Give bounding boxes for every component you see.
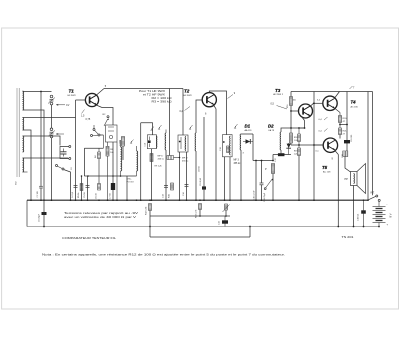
- resistor R18b: [298, 148, 301, 156]
- wire loop left: [149, 211, 151, 238]
- svg-text:9 V: 9 V: [389, 213, 393, 217]
- annotation 9 T2: [228, 95, 234, 99]
- svg-text:AA 119: AA 119: [245, 129, 253, 132]
- ground bus A: [27, 199, 369, 201]
- svg-text:-: -: [387, 204, 388, 207]
- svg-text:HP: HP: [345, 178, 349, 181]
- resistor R13: [199, 204, 202, 210]
- wire osc top: [120, 140, 122, 147]
- svg-text:MF 2/: MF 2/: [182, 158, 188, 160]
- wire MF3 bottoms: [224, 157, 226, 200]
- wire MF1 bottom to bus: [151, 149, 153, 201]
- svg-text:C5 50: C5 50: [84, 192, 86, 198]
- svg-text:Nota : En certains appareils,: Nota : En certains appareils, une résist…: [42, 252, 285, 256]
- svg-text:R9 1,2k: R9 1,2k: [155, 166, 163, 168]
- wire D2 top: [281, 128, 305, 132]
- svg-text:C10: C10: [144, 143, 146, 146]
- wire box right drop: [116, 142, 118, 200]
- wire R6 down: [107, 156, 109, 200]
- wire x347 rail: [346, 92, 348, 152]
- wire MF2left down: [165, 150, 167, 200]
- resistor R17: [290, 133, 293, 143]
- wire AF coupling: [273, 154, 291, 156]
- capacitor C18: [361, 210, 366, 213]
- wire D1 top: [241, 133, 253, 135]
- wire T4 base: [314, 102, 323, 104]
- wire T2 emitter: [214, 105, 217, 109]
- wire T1 collector diag: [97, 89, 105, 96]
- arrow CV1: [56, 104, 65, 106]
- variable capacitor CV1: [50, 95, 53, 98]
- svg-text:MF 1/: MF 1/: [158, 156, 164, 158]
- wire rail to R16: [290, 92, 292, 97]
- coil D1 secondary: [239, 134, 242, 150]
- antenna coil L3: [23, 136, 24, 152]
- node R20-R21: [339, 124, 341, 126]
- svg-text:avec un voltmètre de 40 000 Ω: avec un voltmètre de 40 000 Ω par V: [64, 216, 137, 219]
- svg-text:1,2k: 1,2k: [294, 154, 298, 156]
- svg-text:100: 100: [294, 140, 297, 142]
- svg-text:AC 180: AC 180: [351, 106, 359, 109]
- resistor R10: [171, 183, 174, 190]
- wire osc coils bottom: [120, 171, 122, 176]
- wire mid y145: [291, 144, 323, 146]
- resistor R20: [339, 116, 342, 123]
- wire osc box down: [112, 142, 114, 183]
- svg-text:R2 = 100 kΩ: R2 = 100 kΩ: [152, 96, 172, 100]
- IF transformer MF1: [147, 135, 156, 149]
- wire T1 base: [76, 99, 86, 101]
- svg-text:T2: T2: [184, 89, 190, 94]
- wire R-junction: [339, 113, 341, 116]
- wire rail to MF2: [182, 89, 184, 136]
- oscillator box: [106, 125, 118, 142]
- transistor T2: [202, 93, 216, 107]
- wire pot to bus: [272, 174, 274, 201]
- antenna coil L4: [23, 158, 24, 172]
- svg-text:C5 25µF: C5 25µF: [39, 213, 41, 222]
- thermistor P2: [225, 204, 228, 210]
- resistor R4b: [98, 184, 101, 191]
- node y176 b: [112, 175, 114, 177]
- wire loop bottom: [150, 236, 250, 238]
- svg-text:PO GO: PO GO: [127, 182, 134, 184]
- wire L2 top to T1 base: [23, 117, 76, 119]
- capacitor C5 below bus: [42, 212, 47, 215]
- wire x372 supply: [372, 92, 374, 196]
- wire D1 down: [252, 134, 254, 161]
- svg-text:C15 4,7nF: C15 4,7nF: [254, 190, 256, 200]
- svg-text:C4 0,1: C4 0,1: [72, 191, 74, 198]
- diode D1: [246, 139, 251, 143]
- svg-text:455 kc: 455 kc: [182, 161, 189, 163]
- svg-text:OSC.: OSC.: [127, 179, 133, 181]
- svg-text:Pour T1 HF 9WX: Pour T1 HF 9WX: [139, 89, 165, 93]
- wire base down x76: [75, 100, 77, 200]
- annotation 7: [350, 86, 353, 89]
- node det1: [255, 160, 257, 162]
- svg-text:GO: GO: [16, 181, 18, 185]
- wire CV2 down to bus: [51, 138, 53, 200]
- capacitor C13: [164, 185, 168, 187]
- wire R18 chain: [298, 128, 300, 134]
- wire x204 hang: [203, 117, 205, 200]
- ferrite rod antenna: [16, 88, 18, 177]
- IF transformer MF2: [178, 135, 188, 152]
- svg-text:CV: CV: [66, 104, 70, 107]
- wire T4 collector: [335, 92, 340, 98]
- trimmer bracket: [60, 147, 69, 159]
- supply rail right y91: [291, 91, 373, 93]
- wire loop right up: [249, 227, 251, 238]
- svg-text:HF 9WX: HF 9WX: [68, 95, 77, 97]
- wire x44 below: [43, 200, 45, 226]
- wire x196 down: [195, 151, 197, 200]
- transistor T3: [299, 104, 313, 118]
- svg-text:455 kc: 455 kc: [158, 159, 165, 161]
- svg-text:T5: T5: [322, 165, 328, 170]
- wire T3 emitter: [302, 117, 305, 121]
- svg-text:R19: R19: [294, 151, 297, 153]
- wire speaker lead2: [353, 186, 355, 227]
- wire x84 down: [83, 148, 85, 176]
- speaker HP: [351, 172, 358, 186]
- wire down x41: [40, 92, 42, 187]
- bus B junction dots: [43, 226, 45, 228]
- wire L1 bottom: [23, 110, 45, 200]
- switch contact pair: [56, 165, 58, 167]
- wire switch to x70: [64, 170, 71, 201]
- wire junction to x347: [340, 124, 347, 126]
- svg-text:et T2 HF 9WX: et T2 HF 9WX: [143, 93, 165, 97]
- svg-text:MF 3: MF 3: [234, 160, 240, 162]
- wire T3 collector: [311, 103, 315, 106]
- wire R8 out: [174, 157, 180, 159]
- capacitor C5e: [86, 185, 90, 187]
- capacitor C20 box: [343, 151, 348, 157]
- wire L1 top to CV1: [23, 91, 52, 93]
- wire deck2 up: [93, 125, 95, 129]
- oscillator coil Lb: [137, 151, 138, 171]
- capacitor C14: [185, 184, 189, 186]
- wire T4 emitter: [335, 109, 340, 113]
- variable capacitor CV2: [50, 128, 53, 131]
- emitter rail y148: [84, 147, 103, 149]
- battery 9V: [373, 206, 386, 208]
- wire C11 stub: [224, 216, 226, 227]
- trimmer plates: [61, 151, 67, 153]
- node e-cluster: [304, 127, 306, 129]
- capacitor C7 electrolytic: [111, 183, 115, 190]
- wire x87 drop: [87, 176, 89, 200]
- node x314 y145: [313, 144, 315, 146]
- resistor R8: [167, 156, 174, 160]
- svg-text:COMPARATEUR TESTEUR FIL: COMPARATEUR TESTEUR FIL: [62, 236, 117, 240]
- bus left end join: [26, 200, 28, 226]
- svg-text:R13 4,7k: R13 4,7k: [196, 209, 198, 218]
- node pot top: [272, 160, 274, 162]
- svg-text:R3 = 390 kΩ: R3 = 390 kΩ: [152, 100, 172, 104]
- wire x169 drop: [169, 89, 171, 156]
- svg-text:AC 128: AC 128: [323, 171, 331, 174]
- node L1-CV1: [40, 91, 42, 93]
- wire x81 drop: [81, 176, 83, 200]
- coil MF2 primary-left: [164, 133, 167, 150]
- wire MF2 bottoms: [179, 152, 181, 200]
- capacitor C1: [39, 185, 43, 187]
- bus A junction dots: [30, 199, 32, 201]
- svg-text:R12 1,5k: R12 1,5k: [146, 206, 148, 215]
- svg-text:0,75: 0,75: [86, 118, 91, 121]
- potentiometer P1: [272, 164, 275, 174]
- wire loop mid: [150, 215, 230, 217]
- capacitor C15: [260, 182, 264, 184]
- node y176 a: [87, 175, 89, 177]
- AGC point R2: [107, 116, 109, 118]
- wire CV1 down: [51, 105, 53, 128]
- svg-text:R16: R16: [287, 105, 289, 108]
- wire deck2 to x113: [100, 134, 103, 136]
- wire R17 stub: [290, 128, 292, 133]
- node det2: [261, 160, 263, 162]
- supply rail y88.5: [104, 88, 183, 90]
- svg-text:D1: D1: [245, 124, 251, 129]
- wire T2 base: [196, 100, 202, 133]
- pot wiper arrow: [266, 180, 272, 189]
- arrow CV2: [56, 133, 64, 135]
- capacitor C4: [74, 185, 78, 187]
- svg-text:T4: T4: [351, 100, 357, 105]
- antenna coil L1: [23, 91, 24, 110]
- capacitor C19: [344, 140, 350, 143]
- svg-text:OA 79: OA 79: [268, 129, 275, 132]
- svg-text:C19 100: C19 100: [351, 135, 353, 142]
- switch INT: [368, 196, 376, 200]
- svg-text:R5 1k: R5 1k: [78, 192, 80, 198]
- svg-text:C10 0,04: C10 0,04: [200, 178, 202, 186]
- svg-text:R18: R18: [294, 137, 297, 139]
- svg-text:Tensions relevées par rapport: Tensions relevées par rapport au -9V: [64, 212, 139, 215]
- resistor R21: [339, 128, 342, 135]
- resistor R4: [98, 148, 100, 152]
- transistor T1: [85, 93, 98, 106]
- wire x363 below bus: [363, 200, 365, 226]
- IF transformer MF3: [223, 135, 233, 157]
- wire padder down: [122, 146, 124, 160]
- wire x256 to bus: [255, 161, 257, 201]
- resistor R18a: [298, 134, 301, 142]
- resistor R6: [107, 142, 109, 146]
- transistor T5: [323, 138, 337, 152]
- wire detector out: [253, 160, 273, 162]
- svg-text:C18 0,1: C18 0,1: [358, 213, 360, 221]
- wire R16 to T3 base: [290, 106, 292, 112]
- wire emitter corner: [102, 108, 113, 119]
- svg-text:D2: D2: [268, 124, 274, 129]
- antenna coil L2: [23, 118, 24, 131]
- wire x314 rail: [313, 92, 315, 201]
- svg-text:HF 9WX 2: HF 9WX 2: [273, 94, 284, 96]
- wire x261 to bus: [261, 161, 263, 184]
- coil D2: [279, 132, 282, 150]
- band switch S2 contacts: [93, 129, 95, 131]
- return bus B: [27, 226, 379, 228]
- svg-text:C7 50: C7 50: [110, 193, 112, 199]
- wire x113 down: [112, 118, 114, 125]
- wire R21 down: [339, 135, 341, 139]
- resistor R12: [149, 204, 152, 211]
- coil MF2 secondary: [194, 133, 197, 151]
- resistor R5: [80, 184, 83, 191]
- diode D2: [287, 144, 291, 148]
- wire D2 coil bottom: [280, 150, 282, 155]
- wire x103 stub: [102, 135, 104, 148]
- wire R13 down: [199, 210, 201, 217]
- switch S2 arms: [95, 130, 99, 134]
- wire D1 coil down: [240, 150, 242, 200]
- wire P2 down: [225, 210, 227, 216]
- capacitor C11: [222, 220, 228, 223]
- node x299 y145: [298, 144, 300, 146]
- wire T1 emitter diag: [95, 105, 102, 108]
- wire pot top up: [272, 155, 274, 161]
- wire x368 supply: [367, 92, 369, 201]
- node y176 c: [120, 175, 122, 177]
- capacitor C padding: [122, 137, 125, 147]
- resistor R9: [150, 154, 153, 162]
- wire L4 top to switch: [23, 157, 69, 159]
- svg-text:TS 201: TS 201: [342, 235, 354, 239]
- svg-text:T1: T1: [69, 89, 75, 94]
- MF1 primary loop: [141, 123, 153, 135]
- svg-text:HF 9WX: HF 9WX: [184, 95, 193, 97]
- transistor T4: [323, 96, 337, 110]
- wire T5 collector: [335, 151, 339, 155]
- wire L2 bottom down: [23, 130, 32, 200]
- long wire y176: [84, 175, 136, 177]
- capacitor C17: [278, 153, 285, 156]
- svg-text:T3: T3: [275, 88, 281, 93]
- wire L3 top to switch: [23, 136, 61, 146]
- annotation 1,5: [82, 110, 85, 114]
- wire R16 down to cluster: [290, 111, 292, 128]
- resistor R16: [290, 97, 293, 106]
- svg-text:C1 180: C1 180: [37, 191, 39, 197]
- wire L4 bottom stub: [23, 171, 28, 173]
- capacitor C10: [202, 186, 206, 189]
- svg-text:455 kc: 455 kc: [234, 163, 242, 165]
- oscillator coil La: [121, 147, 122, 171]
- wire T5 base: [314, 144, 323, 146]
- wire speaker lead1: [344, 151, 346, 157]
- wire T2 collector top: [209, 91, 226, 135]
- svg-text:C6 40: C6 40: [96, 193, 98, 199]
- svg-text:C8 50: C8 50: [199, 166, 201, 172]
